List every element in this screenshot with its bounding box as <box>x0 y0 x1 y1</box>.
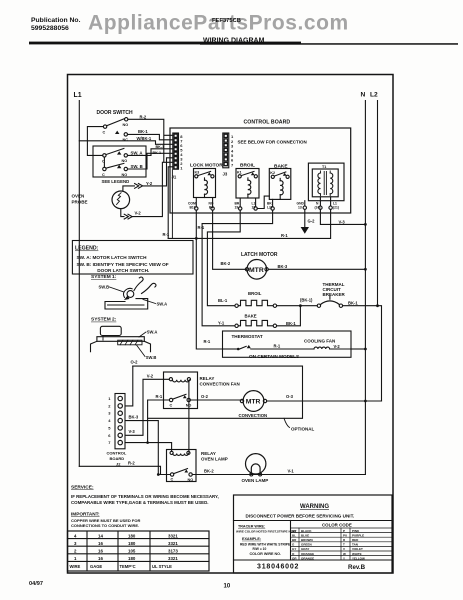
warning box <box>234 495 393 573</box>
svg-text:BK-1: BK-1 <box>348 301 358 306</box>
svg-text:PROBE: PROBE <box>72 200 88 205</box>
svg-text:V-1: V-1 <box>288 469 295 474</box>
svg-text:OVEN: OVEN <box>72 194 85 199</box>
legend box <box>72 241 193 275</box>
wire bake to breaker junction <box>277 306 301 326</box>
svg-text:CONTROL BOARD: CONTROL BOARD <box>244 119 291 125</box>
oven lamp <box>242 454 269 483</box>
svg-text:R-2: R-2 <box>128 460 135 465</box>
svg-text:R/W = 10: R/W = 10 <box>253 547 267 551</box>
header: publication number <box>31 17 81 32</box>
wire broil terminal to broil element <box>207 210 240 306</box>
svg-text:COLOR WIRE NO.: COLOR WIRE NO. <box>250 552 282 556</box>
wire V-2 probe to J1 pin 2 <box>121 162 173 216</box>
latch motor MTR <box>241 252 278 279</box>
svg-text:TAN: TAN <box>352 543 358 547</box>
svg-text:SYSTEM 1:: SYSTEM 1: <box>91 274 117 280</box>
svg-text:SW.A: SW.A <box>157 302 168 307</box>
svg-text:NO: NO <box>122 173 128 177</box>
wire SW.A C to SW.B C <box>103 157 105 167</box>
optional enclosure box <box>133 366 303 418</box>
relay K2 bake <box>267 164 291 211</box>
svg-text:318046002: 318046002 <box>257 564 299 571</box>
wire R-1 J2 pin 7 to fan relay C and lamp coil <box>125 400 171 451</box>
svg-text:BROIL: BROIL <box>240 163 255 169</box>
svg-text:BK-1: BK-1 <box>138 129 148 134</box>
svg-text:SW.B: SW.B <box>146 355 157 360</box>
svg-text:PU: PU <box>343 533 347 537</box>
svg-text:K2: K2 <box>270 171 275 175</box>
svg-text:BLUE: BLUE <box>301 533 309 537</box>
svg-text:3321: 3321 <box>168 541 178 546</box>
svg-text:CONTROL: CONTROL <box>107 451 127 456</box>
convection fan motor MTR <box>239 391 268 418</box>
transformer T1 <box>308 163 344 209</box>
svg-text:1: 1 <box>180 166 183 171</box>
svg-text:16: 16 <box>98 556 103 561</box>
svg-text:SW.B: SW.B <box>99 285 110 290</box>
wire R-2 to J1 pin 8 <box>128 119 173 162</box>
service notes <box>71 485 219 529</box>
header rule <box>29 42 301 45</box>
door switch <box>97 110 133 142</box>
svg-text:OVEN LAMP: OVEN LAMP <box>242 478 269 483</box>
svg-text:3173: 3173 <box>168 549 178 554</box>
svg-text:IF REPLACEMENT OF TERMINALS OR: IF REPLACEMENT OF TERMINALS OR WIRING BE… <box>71 494 219 499</box>
svg-text:CONNECTIONS TO CONDUIT WIRE.: CONNECTIONS TO CONDUIT WIRE. <box>71 523 139 528</box>
connector chevrons V-2 <box>124 214 132 219</box>
wire J1 pin1 drop <box>168 167 173 239</box>
svg-text:B4: B4 <box>209 205 213 209</box>
terminal GND 13 <box>304 201 306 206</box>
svg-text:V-2: V-2 <box>147 373 154 378</box>
svg-text:GAGE: GAGE <box>90 564 102 569</box>
svg-text:(21): (21) <box>333 205 339 209</box>
svg-text:DISCONNECT POWER BEFORE SERVIC: DISCONNECT POWER BEFORE SERVICING UNIT. <box>246 514 355 519</box>
svg-text:MTR: MTR <box>246 399 261 406</box>
svg-text:K1: K1 <box>237 171 242 175</box>
svg-text:O-2: O-2 <box>131 360 139 365</box>
svg-text:BK-3: BK-3 <box>129 415 139 420</box>
svg-text:19: 19 <box>252 205 256 209</box>
wire O-2 J2 pin 2 up to optional box top <box>125 366 133 406</box>
svg-text:4: 4 <box>74 533 77 538</box>
svg-text:BK-2: BK-2 <box>221 261 231 266</box>
svg-text:SW. B: IDENTIFY THE SPECIFIC: SW. B: IDENTIFY THE SPECIFIC VIEW OF <box>77 262 169 267</box>
svg-text:NO: NO <box>188 478 194 482</box>
wire L2 rail <box>377 101 379 307</box>
svg-text:BR: BR <box>292 538 297 542</box>
svg-text:3321: 3321 <box>168 556 178 561</box>
svg-text:SEE LEGEND: SEE LEGEND <box>102 179 130 184</box>
svg-text:16: 16 <box>98 549 103 554</box>
ground <box>304 209 306 227</box>
svg-text:R-1: R-1 <box>274 343 281 348</box>
svg-text:EXAMPLE:: EXAMPLE: <box>242 537 261 541</box>
svg-text:NO: NO <box>122 159 128 163</box>
svg-text:COMPARABLE WIRE TYPE,GAGE & TE: COMPARABLE WIRE TYPE,GAGE & TERMINALS MU… <box>71 500 209 505</box>
wire lamp circuit to neutral <box>192 474 365 476</box>
connector chevrons Y-2 <box>135 184 143 189</box>
svg-text:DOOR SWITCH: DOOR SWITCH <box>97 110 133 116</box>
wire R-1 lock COM down to thermostat <box>196 210 222 349</box>
svg-text:16: 16 <box>98 541 103 546</box>
wire bake terminal to bake element <box>202 210 273 326</box>
svg-text:LEGEND:: LEGEND: <box>75 246 99 252</box>
svg-text:NC: NC <box>123 138 129 142</box>
svg-text:V-3: V-3 <box>129 429 136 434</box>
svg-text:V-2: V-2 <box>334 344 341 349</box>
control board box <box>170 128 351 213</box>
svg-text:YELLOW: YELLOW <box>352 556 365 560</box>
footer <box>29 581 231 590</box>
svg-text:BL: BL <box>292 533 296 537</box>
wire L1 rail <box>78 101 80 467</box>
relay convection fan <box>164 372 240 409</box>
svg-text:THERMOSTAT: THERMOSTAT <box>232 334 263 339</box>
svg-text:RELAY: RELAY <box>200 376 215 381</box>
svg-text:BROWN: BROWN <box>301 538 313 542</box>
svg-text:5995288056: 5995288056 <box>31 25 69 32</box>
svg-text:14: 14 <box>98 533 103 538</box>
svg-text:O: O <box>292 552 295 556</box>
svg-text:TEMP°C: TEMP°C <box>120 564 136 569</box>
svg-text:WIRE COLOR NOTED FIRST,STRIPE: WIRE COLOR NOTED FIRST,STRIPE NEXT. <box>236 530 297 534</box>
wire SW.A NO to J1 pin 5 <box>128 149 173 156</box>
svg-text:O-2: O-2 <box>201 394 209 399</box>
wire BK-1 to J1 pin 7 <box>128 134 173 139</box>
svg-text:PURPLE: PURPLE <box>352 533 364 537</box>
thermal circuit breaker <box>317 282 345 308</box>
wire fan relay coil to lamp relay coil <box>188 381 190 452</box>
svg-text:1: 1 <box>108 396 111 401</box>
svg-text:7: 7 <box>108 440 111 445</box>
svg-text:(24): (24) <box>315 205 321 209</box>
svg-text:DOOR LATCH SWITCH.: DOOR LATCH SWITCH. <box>97 268 149 273</box>
diagram outer frame <box>68 75 394 574</box>
svg-text:W/BK-1: W/BK-1 <box>137 136 152 141</box>
svg-text:T1: T1 <box>322 165 326 169</box>
svg-text:V-2: V-2 <box>135 210 142 215</box>
svg-text:W: W <box>343 552 346 556</box>
wire O-2 relay to convection motor <box>190 399 242 401</box>
relay oven lamp <box>167 450 228 483</box>
svg-text:N: N <box>361 92 366 99</box>
svg-text:(BK-1): (BK-1) <box>300 298 313 303</box>
svg-text:MTR: MTR <box>249 267 264 274</box>
svg-text:Rev.B: Rev.B <box>348 564 366 571</box>
cooling fan <box>304 338 351 349</box>
svg-text:G-2: G-2 <box>308 219 316 224</box>
svg-text:R-1: R-1 <box>156 394 163 399</box>
wire broil to thermal breaker <box>277 305 318 307</box>
wire V-2 J2 pin 6 to fan relay coil <box>125 379 169 435</box>
svg-text:ON CERTAIN MODELS: ON CERTAIN MODELS <box>249 354 299 359</box>
svg-text:5: 5 <box>108 425 111 430</box>
wire Y-2 probe to J1 pin 3 <box>123 158 173 191</box>
relay K3 lock motor <box>188 163 223 211</box>
broil element <box>235 291 277 307</box>
svg-text:R-2: R-2 <box>140 115 147 120</box>
wire V-2 cooling fan to neutral <box>351 348 365 350</box>
svg-text:WIRE: WIRE <box>70 564 81 569</box>
svg-text:BK-1: BK-1 <box>286 321 296 326</box>
svg-text:2: 2 <box>74 549 77 554</box>
svg-text:NO: NO <box>123 123 129 127</box>
svg-text:R-1: R-1 <box>281 233 288 238</box>
svg-text:Publication No.: Publication No. <box>31 17 81 24</box>
svg-text:V: V <box>343 547 345 551</box>
svg-text:ORANGE: ORANGE <box>301 556 314 560</box>
svg-text:3: 3 <box>74 541 77 546</box>
system 2 sketch <box>91 317 158 360</box>
svg-text:BLACK: BLACK <box>301 529 312 533</box>
wire R-2 from L1 rail to lamp relay <box>79 466 170 474</box>
svg-text:BREAKER: BREAKER <box>323 292 346 297</box>
wire O-3 motor output <box>267 400 382 402</box>
wire W/BK-1 from L1 to J1 pin 6 <box>79 141 173 145</box>
svg-text:SYSTEM 2:: SYSTEM 2: <box>91 317 117 323</box>
svg-text:BROIL: BROIL <box>248 291 262 296</box>
svg-text:COOLING FAN: COOLING FAN <box>304 338 335 343</box>
svg-text:BK-2: BK-2 <box>204 469 214 474</box>
wire V-3 transformer N to neutral rail <box>320 209 365 224</box>
switch SW.B <box>102 163 143 177</box>
svg-text:R: R <box>343 538 346 542</box>
svg-text:1: 1 <box>74 556 77 561</box>
svg-text:WIRING DIAGRAM: WIRING DIAGRAM <box>203 38 265 45</box>
connector J1 <box>172 133 184 180</box>
svg-text:UL STYLE: UL STYLE <box>152 564 172 569</box>
svg-text:BOARD: BOARD <box>110 456 125 461</box>
svg-text:7: 7 <box>231 162 234 167</box>
svg-text:10: 10 <box>224 584 231 590</box>
svg-text:3321: 3321 <box>168 533 178 538</box>
svg-text:WARNING: WARNING <box>300 504 329 510</box>
svg-text:RELAY: RELAY <box>201 451 216 456</box>
svg-text:R-1: R-1 <box>163 232 170 237</box>
relay K1 broil <box>235 163 260 211</box>
svg-text:19: 19 <box>235 205 239 209</box>
svg-text:L2: L2 <box>370 92 378 99</box>
svg-text:WHITE: WHITE <box>352 552 362 556</box>
svg-text:BAKE: BAKE <box>245 314 257 319</box>
svg-text:K3: K3 <box>195 171 200 175</box>
wire SW.B NO to J1 pin 4 <box>128 153 173 169</box>
svg-text:J3: J3 <box>223 172 228 177</box>
svg-text:6: 6 <box>108 433 111 438</box>
svg-text:180: 180 <box>128 541 136 546</box>
svg-text:COLOR CODE: COLOR CODE <box>322 523 352 528</box>
svg-text:LATCH MOTOR: LATCH MOTOR <box>241 252 278 258</box>
svg-text:O-3: O-3 <box>286 394 294 399</box>
svg-text:C: C <box>170 404 173 408</box>
connector J2 <box>107 394 127 467</box>
svg-text:R-1: R-1 <box>198 225 205 230</box>
bake element <box>235 314 277 328</box>
svg-text:BK-1: BK-1 <box>153 151 162 155</box>
switch SW.A <box>102 148 143 163</box>
svg-text:GREEN: GREEN <box>301 543 312 547</box>
svg-text:CONVECTION: CONVECTION <box>239 413 268 418</box>
svg-text:B10: B10 <box>190 205 196 209</box>
svg-text:RED WIRE WITH WHITE STRIPE.: RED WIRE WITH WHITE STRIPE. <box>240 543 291 547</box>
svg-text:SEE BELOW FOR CONNECTION: SEE BELOW FOR CONNECTION <box>238 140 307 145</box>
connector J3 <box>223 133 235 177</box>
wire N rail <box>364 101 366 475</box>
svg-text:OPTIONAL: OPTIONAL <box>291 427 315 432</box>
svg-text:VIOLET: VIOLET <box>352 547 363 551</box>
svg-text:P: P <box>343 529 345 533</box>
svg-text:SERVICE:: SERVICE: <box>71 485 94 491</box>
svg-text:13: 13 <box>298 205 302 209</box>
wire J1 pin2 drop <box>171 170 173 238</box>
svg-text:V-3: V-3 <box>339 219 346 224</box>
svg-text:105: 105 <box>128 549 136 554</box>
svg-text:C: C <box>102 173 105 177</box>
svg-text:180: 180 <box>128 556 136 561</box>
svg-text:L1: L1 <box>74 92 82 99</box>
svg-text:TRACER WIRE:: TRACER WIRE: <box>238 524 265 528</box>
svg-text:BK-3: BK-3 <box>278 264 288 269</box>
svg-text:G: G <box>292 543 295 547</box>
svg-text:IMPORTANT:: IMPORTANT: <box>71 512 100 517</box>
svg-text:BK-1: BK-1 <box>156 145 165 149</box>
svg-text:SW. A: MOTOR LATCH SWITCH: SW. A: MOTOR LATCH SWITCH <box>77 255 148 260</box>
svg-text:ORANGE: ORANGE <box>301 552 314 556</box>
svg-text:C: C <box>103 131 106 135</box>
wire lock NO to latch motor <box>213 210 247 269</box>
wire BK-3 J2 pin 4 down to lamp feed <box>125 421 158 475</box>
svg-text:RED: RED <box>352 538 359 542</box>
svg-text:Y: Y <box>343 556 345 560</box>
svg-text:GY: GY <box>292 547 296 551</box>
thermostat box <box>223 331 352 357</box>
svg-text:2: 2 <box>108 403 111 408</box>
system 1 sketch <box>91 274 167 309</box>
svg-text:Y-1: Y-1 <box>218 321 225 326</box>
svg-text:C: C <box>171 478 174 482</box>
latch switch box <box>93 146 146 177</box>
wire breaker output BK-1 <box>343 306 382 401</box>
svg-text:PINK: PINK <box>352 529 360 533</box>
svg-text:GRAY: GRAY <box>301 547 309 551</box>
svg-text:Y-2: Y-2 <box>146 181 153 186</box>
svg-text:CONVECTION FAN: CONVECTION FAN <box>200 382 240 387</box>
svg-text:T: T <box>343 543 345 547</box>
wire L1(21) to bus <box>168 209 330 238</box>
svg-text:BL-1: BL-1 <box>218 298 228 303</box>
svg-text:FEF375CB: FEF375CB <box>212 18 241 24</box>
wire BK-3 latch motor to neutral <box>268 268 365 270</box>
wire gauge table <box>68 531 210 571</box>
svg-text:180: 180 <box>128 533 136 538</box>
svg-text:04/97: 04/97 <box>29 581 43 587</box>
svg-text:OVEN LAMP: OVEN LAMP <box>201 457 228 462</box>
wire broil L1 jumper to bake <box>257 196 269 208</box>
svg-text:3: 3 <box>108 411 111 416</box>
svg-text:LOCK MOTOR: LOCK MOTOR <box>190 163 223 169</box>
svg-text:4: 4 <box>108 418 111 423</box>
oven probe <box>72 191 130 209</box>
svg-text:SW.A: SW.A <box>147 329 158 334</box>
wire door switch C to latch switches <box>87 127 103 156</box>
svg-text:L27: L27 <box>267 205 273 209</box>
svg-text:R-1: R-1 <box>204 339 211 344</box>
